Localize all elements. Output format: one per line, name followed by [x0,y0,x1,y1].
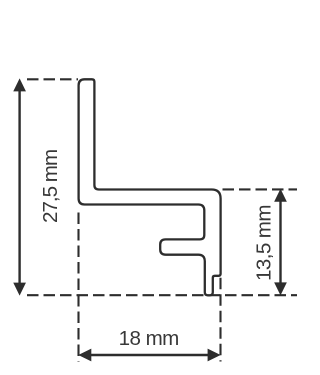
dimension arrow 27,5 mm (left vertical) [13,78,26,295]
svg-text:18 mm: 18 mm [119,327,179,350]
dimension arrow 13,5 mm (right vertical) [274,189,287,296]
extension dashed line bottom (y=295) [27,294,297,296]
extension dashed line top-left (y=79) [27,78,78,80]
extension dashed line right-top (y=189) [223,188,298,190]
svg-text:13,5 mm: 13,5 mm [253,205,276,281]
extension dashed line vertical left (x=78.5) [77,213,79,362]
profile outline (aluminium profile cross-section) [79,79,221,295]
svg-text:27,5 mm: 27,5 mm [39,150,62,223]
extension dashed line vertical right (x=220.5) [219,278,221,362]
dimension arrow 18 mm (bottom horizontal) [78,349,220,362]
